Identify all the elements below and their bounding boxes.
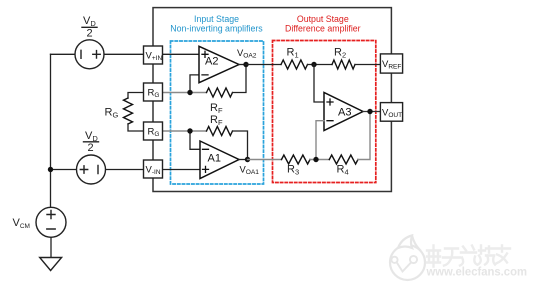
wire A3 output to pin VOUT [363, 111, 380, 113]
label RF1 [210, 102, 223, 115]
label RG external [105, 107, 119, 120]
label R3 [287, 164, 299, 177]
junction rail/bottom source [48, 167, 53, 172]
wire R3 to R4 [310, 159, 329, 161]
svg-text:Output Stage: Output Stage [297, 14, 349, 24]
label Input Stage header [170, 14, 263, 34]
resistor R1 [281, 60, 308, 69]
wire bottom source to rail [51, 169, 77, 171]
pin V+IN [144, 46, 163, 64]
label Output Stage header [285, 14, 361, 34]
svg-text:Input Stage: Input Stage [194, 14, 239, 24]
label VD/2 top [83, 15, 96, 40]
label RF2 [210, 114, 223, 127]
wire RG1 to external RG [128, 93, 144, 99]
op-amp A2 [199, 46, 239, 82]
resistor RG external [124, 98, 133, 124]
svg-text:A1: A1 [208, 153, 221, 165]
resistor R2 [332, 60, 355, 69]
watermark Chinese text (stylized strokes) [427, 246, 510, 267]
label R4 [337, 164, 349, 177]
resistor R4 [329, 155, 358, 164]
label VCM [13, 217, 30, 230]
wire R2 to pin VREF [355, 64, 380, 66]
pin VOUT [380, 103, 402, 122]
source VCM [36, 207, 66, 237]
output stage dashed box [273, 41, 376, 183]
wire top source to rail [51, 53, 76, 55]
pin V-IN [144, 160, 163, 178]
watermark logo [390, 236, 425, 281]
op-amp A3 [324, 93, 363, 131]
resistor R3 [282, 155, 311, 164]
junction dot R3/R4 [313, 157, 318, 162]
ground [40, 258, 62, 271]
wire A2 apex to node VOA2 [239, 64, 246, 66]
wire external RG to RG2 [128, 124, 144, 131]
wire VOA1 to R3 [248, 159, 282, 161]
svg-text:Difference amplifier: Difference amplifier [285, 24, 361, 34]
wire bottom source to pin V-IN [106, 169, 144, 171]
label R2 [334, 47, 346, 60]
wire A1 apex to node VOA1 [239, 159, 248, 161]
wire R1 to R2 [308, 64, 333, 66]
wire RF1 to A2 output [233, 65, 247, 93]
svg-text:2: 2 [87, 28, 93, 40]
svg-text:Non-inverting amplifiers: Non-inverting amplifiers [170, 24, 263, 34]
svg-text:2: 2 [88, 142, 94, 154]
junction dot RF2 tap [187, 128, 192, 133]
svg-text:A3: A3 [338, 107, 351, 119]
svg-text:A2: A2 [205, 56, 218, 68]
wire V+IN to A2 + input [163, 53, 200, 55]
pin RG1 [144, 83, 163, 101]
wire VCM to ground [50, 237, 52, 257]
resistor RF2 [207, 127, 233, 136]
wire A1 feedback (inverting input) [190, 131, 200, 149]
junction dot RF1 tap [187, 90, 192, 95]
node A3 output [367, 109, 372, 114]
wire A3 - input to R3/R4 junction [316, 121, 324, 160]
wire RG1 to RF1 [163, 92, 207, 94]
label R1 [287, 47, 299, 60]
IC boundary rectangle [153, 8, 391, 192]
watermark url text [426, 265, 527, 279]
pin RG2 [144, 122, 163, 140]
svg-text:www.elecfans.com: www.elecfans.com [426, 265, 527, 279]
input stage dashed box [171, 41, 264, 184]
wire left rail [50, 54, 52, 207]
wire A2 feedback (inverting input) [190, 75, 199, 93]
wire RF2 to A1 output [233, 131, 248, 160]
junction dot R1/R2 [311, 62, 316, 67]
wire R1/R2 junction to A3 + input [314, 65, 324, 103]
wire R4 feedback to A3 output [358, 112, 370, 160]
node VOA1 [245, 157, 250, 162]
pin VREF [380, 54, 402, 73]
wire top source to pin V+IN [104, 53, 144, 55]
node VOA2 [243, 62, 248, 67]
source VS2 (VD/2 bottom) [77, 155, 106, 184]
wire V-IN to A1 + input [163, 169, 201, 171]
resistor RF1 [207, 88, 233, 97]
wire RG2 to RF2 [163, 130, 207, 132]
op-amp A1 [200, 141, 239, 179]
source VS1 (VD/2 top) [75, 40, 104, 69]
wire VOA2 to R1 [246, 64, 281, 66]
label VD/2 bottom [85, 130, 98, 154]
